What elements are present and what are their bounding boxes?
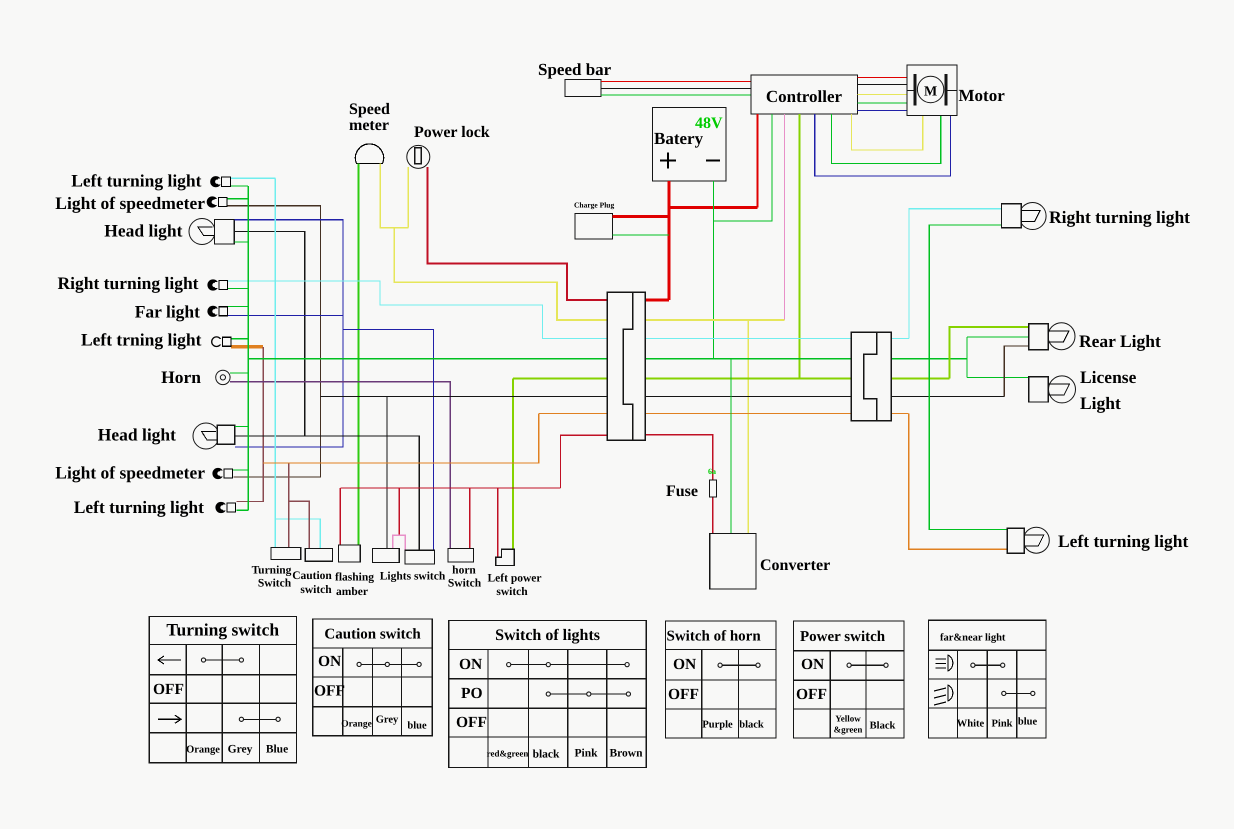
- svg-text:OFF: OFF: [668, 686, 699, 703]
- svg-text:Turning switch: Turning switch: [166, 620, 279, 640]
- lamp left turning light front: [210, 176, 221, 187]
- svg-text:red&green: red&green: [487, 749, 529, 759]
- headlight1 circle: [189, 219, 215, 245]
- svg-text:Lights switch: Lights switch: [380, 571, 446, 583]
- svg-text:Light of speedmeter: Light of speedmeter: [55, 463, 205, 483]
- wire controller-motor yellow: [858, 94, 907, 96]
- wire green to rear light: [967, 336, 1029, 338]
- svg-text:Converter: Converter: [760, 557, 830, 574]
- lamp light of speedmeter rear: [212, 468, 223, 479]
- lights switch box 1: [373, 549, 400, 563]
- svg-text:blue: blue: [1018, 717, 1038, 728]
- wire speedometer green down: [358, 164, 360, 546]
- wire controller greenyellow down: [799, 114, 801, 379]
- svg-text:Grey: Grey: [376, 715, 399, 726]
- wire battery red branch to controller: [669, 206, 757, 209]
- wire bulb2 brown: [228, 206, 321, 477]
- wire orange bus: [539, 413, 909, 415]
- lamp rear light: [1048, 323, 1075, 350]
- wire maroon branch caution: [289, 501, 310, 548]
- svg-text:Motor: Motor: [959, 86, 1006, 105]
- svg-text:Pink: Pink: [991, 719, 1012, 730]
- svg-text:Black: Black: [870, 721, 896, 732]
- speed-bar box: [565, 80, 601, 97]
- wire controller red down: [756, 114, 758, 208]
- wire greenyellow drop to left-power-switch: [512, 378, 514, 549]
- svg-text:Light of speedmeter: Light of speedmeter: [55, 193, 205, 213]
- svg-text:black: black: [533, 749, 560, 761]
- svg-text:ON: ON: [459, 656, 482, 673]
- wire bulb9 green: [233, 469, 248, 471]
- svg-text:&green: &green: [834, 725, 863, 735]
- wire bulb5 green: [228, 305, 248, 307]
- wire controller-motor black: [858, 84, 907, 86]
- svg-text:ON: ON: [318, 653, 341, 670]
- svg-text:Right turning light: Right turning light: [1049, 207, 1190, 227]
- svg-text:Switch: Switch: [258, 578, 292, 590]
- wire green to license light: [967, 376, 1029, 378]
- svg-text:Grey: Grey: [228, 744, 253, 756]
- wire charge-plug green: [612, 234, 669, 236]
- battery plus symbol: [660, 153, 676, 169]
- lamp far light: [207, 306, 218, 317]
- wire cyan up right: [909, 209, 1002, 339]
- speedometer symbol: [355, 144, 383, 164]
- wire maroon vertical left: [236, 347, 263, 502]
- svg-text:Batery: Batery: [654, 129, 704, 148]
- svg-text:Yellow: Yellow: [835, 714, 861, 724]
- wire controller-motor green: [858, 102, 907, 104]
- battery minus symbol: [706, 160, 720, 162]
- wire green to converter: [730, 359, 732, 534]
- wire controller green down: [714, 114, 772, 221]
- svg-text:Caution switch: Caution switch: [324, 626, 421, 642]
- wire red bus up to connector: [561, 435, 608, 488]
- motor circle: [917, 76, 943, 102]
- svg-text:Left turning light: Left turning light: [1058, 531, 1188, 551]
- table Switch of horn: [666, 621, 777, 650]
- wire headlight1 blue: [234, 220, 343, 447]
- wire headlight2 green: [235, 426, 248, 428]
- wire greenyellow bus: [513, 377, 950, 379]
- svg-text:OFF: OFF: [153, 681, 184, 698]
- pink tee to lights switches: [393, 535, 406, 550]
- wire bulb1 green: [231, 185, 248, 187]
- svg-text:License: License: [1080, 367, 1137, 387]
- fuse body: [710, 480, 717, 497]
- svg-text:switch: switch: [300, 584, 332, 596]
- wire power-lock yellow: [407, 167, 409, 228]
- svg-text:ON: ON: [801, 656, 824, 673]
- horn switch box: [448, 549, 474, 562]
- svg-text:Rear Light: Rear Light: [1079, 331, 1161, 351]
- table far&near light: [929, 620, 1047, 650]
- horn symbol: [216, 370, 230, 384]
- lamp left turning light rear-left: [215, 502, 226, 513]
- connector J2 (rear harness): [851, 332, 891, 420]
- svg-text:Power lock: Power lock: [414, 124, 490, 141]
- wire black bus: [320, 395, 1004, 397]
- svg-text:flashing: flashing: [335, 572, 374, 584]
- wire maroon drop turning: [288, 463, 290, 548]
- controller box: [751, 75, 858, 114]
- wire bulb10 green: [236, 509, 248, 511]
- wire loop green: [832, 114, 941, 164]
- svg-text:OFF: OFF: [456, 714, 487, 731]
- svg-text:Right turning light: Right turning light: [58, 273, 199, 293]
- svg-text:6a: 6a: [708, 467, 716, 476]
- left power switch box: [496, 549, 515, 565]
- wire bulb6 orange stub: [231, 345, 263, 349]
- wire battery red to connector: [644, 299, 669, 302]
- svg-text:Far light: Far light: [135, 302, 200, 322]
- headlight1 wedge: [198, 227, 215, 236]
- svg-text:Switch of horn: Switch of horn: [667, 628, 762, 644]
- wire black up to rear light: [1004, 346, 1029, 396]
- svg-text:Head light: Head light: [104, 221, 182, 241]
- wire bulb4 cyan: [228, 281, 909, 339]
- lamp light of speedmeter front: [207, 196, 218, 207]
- svg-text:far&near light: far&near light: [940, 632, 1006, 643]
- svg-text:Left turning light: Left turning light: [74, 497, 204, 517]
- lamp right turning light front: [207, 279, 218, 290]
- wire bulb1 cyan: [231, 177, 275, 179]
- wire controller pink down: [784, 114, 786, 320]
- lamp left trning light: [212, 337, 222, 347]
- motor left brush bar: [914, 75, 916, 106]
- svg-text:OFF: OFF: [314, 683, 345, 700]
- svg-text:meter: meter: [349, 117, 389, 134]
- svg-text:OFF: OFF: [796, 686, 827, 703]
- wire controller-motor blue: [858, 110, 907, 112]
- svg-text:Speed bar: Speed bar: [538, 60, 612, 79]
- wire headlight1 black: [234, 231, 304, 436]
- svg-text:Switch of lights: Switch of lights: [495, 627, 600, 644]
- wire speedometer yellow: [380, 164, 408, 228]
- wire charge-plug red: [612, 215, 669, 218]
- wire bulb5 blue: [228, 315, 343, 317]
- wire green bus: [248, 358, 967, 360]
- flashing amber box: [339, 545, 361, 562]
- wire orange left branch: [263, 414, 539, 463]
- svg-text:Orange: Orange: [341, 720, 372, 730]
- wire green rear turn lights: [929, 225, 1007, 530]
- wire battery + red vertical: [668, 181, 671, 300]
- svg-text:Blue: Blue: [266, 744, 288, 756]
- svg-text:Left trning light: Left trning light: [81, 330, 202, 350]
- wire headlight2 black: [235, 436, 419, 550]
- svg-text:blue: blue: [407, 721, 427, 732]
- wire controller-motor red: [858, 77, 907, 79]
- wire red connector to fuse: [645, 435, 713, 480]
- svg-text:Switch: Switch: [448, 578, 482, 590]
- motor right brush bar: [945, 75, 947, 106]
- wire bulb4 green: [228, 288, 248, 290]
- svg-text:Left power: Left power: [488, 573, 542, 585]
- wire red drop to pink tee: [398, 488, 400, 535]
- svg-text:Light: Light: [1080, 393, 1121, 413]
- svg-text:ON: ON: [673, 656, 696, 673]
- wire yellow run to connector: [394, 228, 784, 320]
- wire fuse to converter: [712, 497, 714, 534]
- table Caution switch: [313, 619, 433, 648]
- table Turning switch: [149, 617, 296, 645]
- connector J1 (main harness): [607, 292, 645, 440]
- battery box: [653, 108, 727, 182]
- wire loop yellow: [852, 114, 923, 150]
- motor right terminal: [947, 90, 957, 92]
- lights switch box 2: [405, 550, 435, 564]
- wire headlight1 green: [234, 241, 248, 243]
- power-lock symbol: [407, 145, 430, 168]
- wire horn purple: [230, 382, 450, 549]
- wire green vertical trunk: [247, 186, 249, 510]
- svg-text:switch: switch: [496, 586, 528, 598]
- wire orange right drop: [909, 414, 1008, 550]
- table Power switch: [794, 621, 905, 651]
- wire black drop lights1: [386, 396, 388, 548]
- table Switch of lights: [449, 620, 646, 649]
- wire red drop left-power-switch: [497, 488, 499, 557]
- svg-text:Horn: Horn: [161, 367, 201, 387]
- turning switch box: [271, 547, 301, 559]
- svg-text:Caution: Caution: [292, 570, 332, 582]
- headlight2 wedge: [202, 431, 218, 440]
- wire speed-bar to controller (red): [601, 81, 751, 83]
- wire cyan vertical trunk: [274, 178, 276, 547]
- headlight1 base: [215, 220, 235, 245]
- headlight2 base: [217, 425, 235, 444]
- svg-text:Fuse: Fuse: [666, 483, 698, 500]
- svg-text:horn: horn: [452, 565, 476, 577]
- svg-text:black: black: [739, 720, 764, 731]
- headlight2 circle: [193, 423, 219, 449]
- wire greenyellow up to rear light: [950, 327, 1029, 378]
- lamp left turning light rear: [1023, 527, 1049, 553]
- svg-text:Turning: Turning: [252, 565, 292, 577]
- wire red drop flashing-amber: [339, 488, 341, 545]
- svg-text:Brown: Brown: [609, 748, 643, 760]
- wire battery - green vertical: [713, 181, 715, 359]
- wire yellow branch to converter: [747, 320, 749, 534]
- svg-text:White: White: [957, 719, 985, 730]
- caution switch box: [305, 549, 332, 562]
- svg-text:Orange: Orange: [186, 745, 220, 756]
- svg-text:Power switch: Power switch: [800, 629, 886, 645]
- wire loop blue: [815, 114, 951, 176]
- wire bulb2 green: [228, 198, 249, 200]
- motor box: [907, 65, 957, 116]
- wire speed-bar to controller (green): [601, 94, 751, 96]
- wire power-lock red: [428, 167, 644, 300]
- converter box: [710, 534, 756, 590]
- svg-text:Speed: Speed: [349, 101, 390, 118]
- wire green bus right drop: [966, 337, 968, 378]
- motor left terminal: [907, 90, 914, 92]
- svg-text:Charge Plug: Charge Plug: [574, 201, 614, 210]
- wire cyan branch to caution: [275, 519, 320, 549]
- wire red drop horn switch: [469, 488, 471, 549]
- svg-text:Pink: Pink: [574, 748, 598, 760]
- svg-text:Head light: Head light: [98, 425, 176, 445]
- wire bulb6 green: [231, 338, 248, 340]
- lamp right turning light rear: [1019, 203, 1046, 230]
- wire speed-bar to controller (black): [601, 87, 751, 89]
- wire horn green: [230, 372, 248, 374]
- wire blue branch: [343, 330, 434, 551]
- svg-text:Purple: Purple: [702, 720, 733, 731]
- wire red bus: [340, 487, 560, 489]
- svg-text:Controller: Controller: [766, 87, 843, 106]
- svg-text:amber: amber: [336, 586, 368, 598]
- svg-text:M: M: [924, 85, 937, 100]
- svg-text:PO: PO: [461, 685, 483, 702]
- lamp license light: [1049, 376, 1076, 403]
- svg-text:Left turning light: Left turning light: [71, 171, 201, 191]
- charge-plug box: [575, 214, 612, 240]
